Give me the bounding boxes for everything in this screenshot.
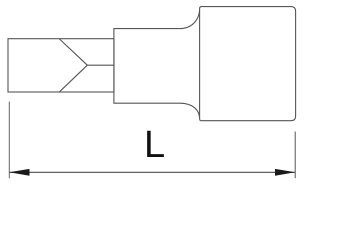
extension line right (294, 132, 296, 179)
blade grind line lower (60, 65, 88, 92)
shaft with flare into socket (114, 10, 200, 118)
arrowhead left (9, 169, 29, 176)
extension line left (8, 102, 10, 179)
blade grind line upper (60, 39, 88, 65)
svg-text:L: L (144, 124, 165, 166)
blade center line (87, 64, 114, 66)
blade (flat screwdriver tip) (8, 39, 114, 92)
arrowhead right (275, 169, 295, 176)
socket body (200, 7, 296, 121)
dimension line (9, 171, 295, 173)
